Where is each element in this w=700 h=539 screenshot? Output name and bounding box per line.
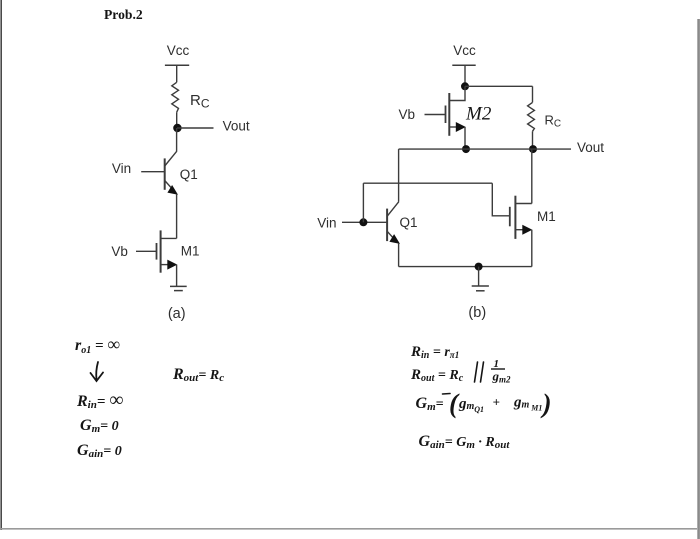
- node Vcc junction dot (b): [461, 82, 469, 90]
- ground symbol (a): [170, 286, 187, 290]
- wire Vin lead (a): [141, 171, 165, 173]
- node Vin junction dot (b): [359, 218, 367, 226]
- wire link rail down to M1 gate (b): [492, 183, 510, 216]
- transistor M1 nmos (b): [510, 196, 533, 239]
- wire M1 source to ground (a): [176, 265, 178, 287]
- wire Vin lead (b): [342, 221, 387, 223]
- transistor Q1 npn (b): [387, 202, 400, 244]
- transistor M1 nmos (a): [157, 230, 178, 272]
- ground symbol (b): [472, 286, 489, 291]
- svg-text:M1: M1: [537, 209, 556, 224]
- Vcc supply bar (b): [452, 64, 475, 66]
- resistor RC (b): [528, 86, 535, 149]
- wire collector to Vout node (a): [176, 128, 178, 151]
- wire M1 source down (b): [531, 230, 533, 267]
- svg-text:M2: M2: [465, 104, 492, 125]
- arrow down: [91, 362, 104, 381]
- svg-text:(a): (a): [168, 306, 186, 322]
- svg-text:Q1: Q1: [400, 215, 418, 230]
- node Vout junction dot (a): [173, 124, 181, 132]
- wire Vcc bar to RC (a): [176, 65, 178, 82]
- transistor M2 pmos (b): [446, 86, 466, 149]
- wire Q1 emitter to M1 drain (a): [176, 194, 178, 239]
- wire M1 gate lead (a): [136, 250, 157, 252]
- svg-text:Gm= 0: Gm= 0: [80, 417, 119, 435]
- svg-text:M1: M1: [181, 244, 200, 259]
- wire M1 drain up to Vout rail (b): [531, 149, 533, 203]
- node RC bottom junction dot (b): [529, 145, 537, 153]
- page left border line: [0, 0, 2, 530]
- svg-text:Vb: Vb: [111, 244, 128, 259]
- svg-text:Prob.2: Prob.2: [104, 7, 143, 22]
- resistor RC (a): [172, 82, 179, 112]
- wire top rail to RC (b): [465, 85, 533, 87]
- wire RC to Vout node (a): [176, 112, 178, 128]
- svg-text:+: +: [493, 395, 500, 410]
- page right border line: [697, 19, 700, 539]
- svg-text:Vb: Vb: [399, 107, 416, 122]
- wire node to ground (b): [478, 267, 480, 286]
- svg-text:Q1: Q1: [180, 167, 198, 182]
- wire bottom rail (b): [399, 266, 532, 268]
- svg-text:Rout= Rc: Rout= Rc: [172, 366, 224, 384]
- wire M2 gate lead (b): [425, 114, 446, 116]
- Vcc supply bar (a): [165, 64, 189, 66]
- svg-text:Vin: Vin: [112, 161, 131, 176]
- node M2 drain junction dot (b): [462, 145, 470, 153]
- svg-text:Rout = Rc: Rout = Rc: [410, 367, 464, 384]
- page bottom border line: [0, 528, 697, 530]
- svg-text:Vcc: Vcc: [453, 43, 476, 58]
- svg-text:Vcc: Vcc: [167, 43, 190, 58]
- transistor Q1 npn (a): [165, 151, 178, 195]
- wire Vout lead (a): [177, 127, 214, 129]
- wire Q1 collector up to Vout rail (b): [398, 149, 400, 202]
- wire Vin node up (b): [362, 183, 364, 222]
- wire Vout rail (b): [399, 148, 571, 150]
- wire Q1 emitter down (b): [398, 243, 400, 267]
- svg-text:(b): (b): [468, 305, 486, 321]
- svg-text:Vout: Vout: [577, 140, 604, 155]
- wire Vcc bar to node (b): [464, 65, 466, 86]
- svg-text:Vout: Vout: [223, 118, 250, 133]
- node ground junction dot (b): [475, 263, 483, 271]
- svg-text:Vin: Vin: [317, 216, 336, 231]
- wire base to gate link rail (b): [363, 182, 492, 184]
